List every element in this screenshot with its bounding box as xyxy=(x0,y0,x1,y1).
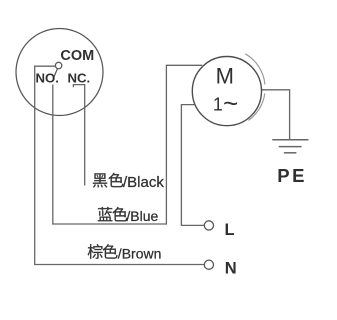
svg-text:PE: PE xyxy=(277,165,307,186)
svg-text:COM: COM xyxy=(60,48,94,64)
switch pivot contact xyxy=(55,62,61,68)
svg-text:N: N xyxy=(225,259,237,277)
wire NC black run xyxy=(73,85,84,186)
motor circle U1 xyxy=(192,57,261,126)
wire motor to PE ground xyxy=(262,90,290,140)
switch lever arm xyxy=(53,69,57,79)
svg-text:NO.: NO. xyxy=(36,70,59,85)
svg-text:/Blue: /Blue xyxy=(126,208,158,224)
motor shell arc lower xyxy=(248,93,264,120)
svg-text:L: L xyxy=(225,221,235,239)
svg-text:M: M xyxy=(216,63,234,88)
svg-text:/Black: /Black xyxy=(123,174,164,191)
switch body circle SW1 xyxy=(16,29,103,116)
terminal L circle xyxy=(204,221,213,230)
label brown wire zong-se/Brown xyxy=(88,244,162,261)
ground symbol bar1 xyxy=(272,139,308,141)
wire motor to L terminal xyxy=(181,105,204,226)
svg-text:1: 1 xyxy=(213,94,223,114)
label blue wire lan-se/Blue xyxy=(98,207,159,224)
motor shell arc upper xyxy=(245,54,265,85)
terminal N circle xyxy=(204,260,213,269)
ground symbol bar2 xyxy=(279,146,302,148)
wire NO blue run to motor xyxy=(53,65,203,224)
label black wire hei-se/Black xyxy=(93,173,164,191)
wire COM lead + down to N xyxy=(35,66,205,264)
svg-text:NC.: NC. xyxy=(68,70,91,85)
ground symbol bar3 xyxy=(284,152,297,154)
svg-text:/Brown: /Brown xyxy=(118,245,162,261)
svg-text:~: ~ xyxy=(223,88,238,118)
